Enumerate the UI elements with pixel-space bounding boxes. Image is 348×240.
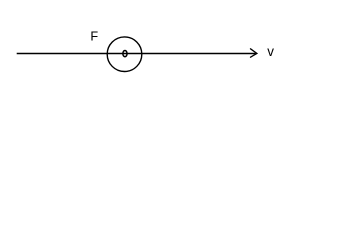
arrowhead (v direction)	[251, 49, 257, 57]
svg-text:F: F	[90, 30, 98, 44]
wire velocity line	[17, 52, 256, 54]
inner dot (out-of-page symbol)	[123, 51, 127, 57]
particle circle	[107, 37, 142, 72]
svg-text:v: v	[267, 44, 274, 59]
